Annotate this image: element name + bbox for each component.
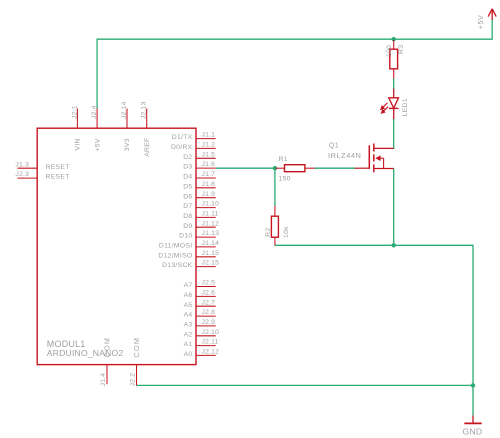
svg-text:RESET: RESET	[46, 164, 70, 171]
pin A6 stub	[196, 295, 216, 297]
pin D10 stub	[196, 236, 216, 238]
transistor Q1 IRLZ44N n-channel MOSFET	[369, 144, 374, 173]
svg-text:J2.2: J2.2	[130, 373, 137, 387]
svg-text:D7: D7	[183, 203, 192, 210]
svg-text:150: 150	[279, 175, 291, 182]
svg-text:J1.5: J1.5	[202, 151, 216, 158]
pin D12/MISO stub	[196, 256, 216, 258]
svg-text:J2.3: J2.3	[15, 171, 29, 178]
svg-text:J1.9: J1.9	[202, 191, 216, 198]
wire +5V net horizontal top	[97, 38, 492, 40]
svg-text:IRLZ44N: IRLZ44N	[328, 151, 361, 160]
svg-text:AREF: AREF	[144, 137, 151, 156]
svg-text:J1.13: J1.13	[202, 230, 220, 237]
svg-text:J1.2: J1.2	[202, 142, 216, 149]
svg-text:R1: R1	[279, 156, 288, 163]
wire GND net horizontal from module COM pin	[137, 384, 474, 386]
pin D2 stub	[196, 157, 216, 159]
pin COM J2.2 stub	[136, 365, 138, 386]
svg-text:J2.4: J2.4	[91, 105, 98, 119]
pin D8 stub	[196, 216, 216, 218]
pin D9 stub	[196, 226, 216, 228]
node junction +5V/R3	[392, 37, 396, 41]
svg-text:J2.6: J2.6	[202, 290, 216, 297]
pin RESET J2.3 stub	[18, 177, 38, 179]
pin VIN J2.1 stub	[76, 109, 78, 129]
svg-text:D6: D6	[183, 193, 192, 200]
pin AREF J2.13 stub	[146, 109, 148, 129]
svg-text:J1.14: J1.14	[202, 240, 220, 247]
svg-text:D13/SCK: D13/SCK	[162, 262, 193, 269]
svg-text:J2.13: J2.13	[141, 101, 148, 119]
svg-text:J2.12: J2.12	[202, 349, 220, 356]
pin A2 stub	[196, 335, 216, 337]
pin D5 stub	[196, 187, 216, 189]
svg-text:J1.7: J1.7	[202, 171, 216, 178]
resistor R1	[275, 167, 284, 169]
pin D13/SCK stub	[196, 266, 216, 268]
LED1 emission arrows	[381, 103, 388, 113]
svg-text:J2.5: J2.5	[202, 280, 216, 287]
svg-text:D5: D5	[183, 183, 192, 190]
svg-text:ARDUINO_NANO2: ARDUINO_NANO2	[47, 348, 124, 358]
svg-text:J2.11: J2.11	[202, 339, 219, 346]
svg-text:J2.15: J2.15	[202, 260, 220, 267]
svg-text:R2: R2	[265, 228, 272, 237]
pin A4 stub	[196, 315, 216, 317]
svg-text:10k: 10k	[283, 226, 290, 238]
transistor Q1 drain lead	[374, 147, 394, 149]
svg-text:J1.8: J1.8	[202, 181, 216, 188]
svg-text:J1.6: J1.6	[202, 161, 216, 168]
svg-text:J2.10: J2.10	[202, 329, 220, 336]
svg-text:+5V: +5V	[94, 138, 101, 151]
svg-text:D12/MISO: D12/MISO	[158, 252, 192, 259]
svg-text:J2.8: J2.8	[202, 309, 216, 316]
pin A3 stub	[196, 325, 216, 327]
pin D6 stub	[196, 197, 216, 199]
wire net D3 from node A down to R2	[274, 168, 276, 206]
pin COM J1.4 stub	[106, 365, 108, 385]
svg-text:J1.11: J1.11	[202, 211, 219, 218]
pin +5V J2.4 stub	[96, 109, 98, 129]
pin D3 stub	[196, 167, 216, 169]
power +5V arrow symbol	[488, 9, 496, 20]
wire GND net vertical riser	[472, 245, 474, 386]
wire net from R1 to Q1 gate	[315, 167, 356, 169]
pin A1 stub	[196, 345, 216, 347]
op-amp substitute: module MODUL1 ARDUINO_NANO2 box outline	[37, 128, 196, 364]
wire bottom net horizontal from R2 to right riser	[275, 244, 473, 246]
wire net Q1 source down to bottom node	[393, 169, 395, 246]
node junction bottom net / GND riser	[471, 383, 475, 387]
svg-text:J1.4: J1.4	[100, 373, 107, 387]
svg-text:VIN: VIN	[75, 138, 82, 150]
svg-text:A1: A1	[184, 341, 193, 348]
pin A7 stub	[196, 286, 216, 288]
svg-text:J1.1: J1.1	[202, 132, 216, 139]
pin D1/TX stub	[196, 138, 216, 140]
svg-text:A2: A2	[184, 331, 193, 338]
svg-text:A6: A6	[184, 292, 193, 299]
svg-text:D3: D3	[183, 164, 192, 171]
svg-text:D10: D10	[179, 233, 192, 240]
svg-text:D9: D9	[183, 223, 192, 230]
svg-text:D4: D4	[183, 174, 192, 181]
svg-text:D2: D2	[183, 154, 192, 161]
svg-text:J1.10: J1.10	[202, 201, 220, 208]
svg-text:100: 100	[386, 45, 393, 57]
svg-text:J1.12: J1.12	[202, 220, 220, 227]
svg-text:GND: GND	[463, 426, 483, 436]
svg-text:A4: A4	[184, 312, 193, 319]
svg-text:J2.7: J2.7	[202, 299, 216, 306]
svg-text:RESET: RESET	[46, 174, 70, 181]
wire +5V net drop to module pin J2.4	[96, 39, 98, 109]
svg-text:J2.14: J2.14	[121, 101, 128, 119]
svg-text:J1.15: J1.15	[202, 250, 220, 257]
svg-text:LED1: LED1	[402, 98, 409, 116]
transistor Q1 substrate arrow	[379, 158, 384, 168]
svg-text:+5V: +5V	[476, 15, 485, 30]
wire GND net drop to ground symbol	[472, 385, 474, 416]
svg-text:A0: A0	[184, 351, 193, 358]
svg-text:Q1: Q1	[329, 140, 339, 149]
svg-text:J1.3: J1.3	[15, 161, 29, 168]
ground symbol GND	[472, 416, 474, 424]
svg-text:A3: A3	[184, 322, 193, 329]
svg-text:COM: COM	[132, 337, 141, 358]
svg-text:3V3: 3V3	[124, 138, 131, 151]
resistor R3	[393, 40, 395, 49]
svg-text:J2.9: J2.9	[202, 319, 216, 326]
svg-text:R3: R3	[398, 45, 405, 54]
svg-text:D8: D8	[183, 213, 192, 220]
wire +5V net vertical right riser	[491, 20, 493, 40]
svg-text:J2.1: J2.1	[71, 105, 78, 119]
node junction Q1 source / bottom net	[392, 243, 396, 247]
pin A5 stub	[196, 305, 216, 307]
node A junction D3/R1/R2	[273, 166, 277, 170]
svg-text:A5: A5	[184, 302, 193, 309]
svg-text:D11/MOSI: D11/MOSI	[159, 243, 193, 250]
pin A0 stub	[196, 354, 216, 356]
svg-text:D0/RX: D0/RX	[171, 144, 193, 151]
pin RESET J1.3 stub	[18, 167, 38, 169]
wire net D3 from module pin to node A	[216, 167, 276, 169]
resistor R2	[274, 206, 276, 217]
LED LED1	[389, 89, 399, 119]
transistor Q1 source lead	[374, 168, 394, 170]
pin D0/RX stub	[196, 147, 216, 149]
pin D7 stub	[196, 207, 216, 209]
pin D4 stub	[196, 177, 216, 179]
wire short net segment between R3 and LED1	[393, 78, 395, 89]
pin 3V3 J2.14 stub	[126, 109, 128, 129]
transistor Q1 gate lead	[355, 167, 370, 169]
svg-text:D1/TX: D1/TX	[172, 134, 193, 141]
wire net LED cathode to Q1 drain	[393, 118, 395, 149]
pin D11/MOSI stub	[196, 246, 216, 248]
svg-text:A7: A7	[184, 282, 193, 289]
